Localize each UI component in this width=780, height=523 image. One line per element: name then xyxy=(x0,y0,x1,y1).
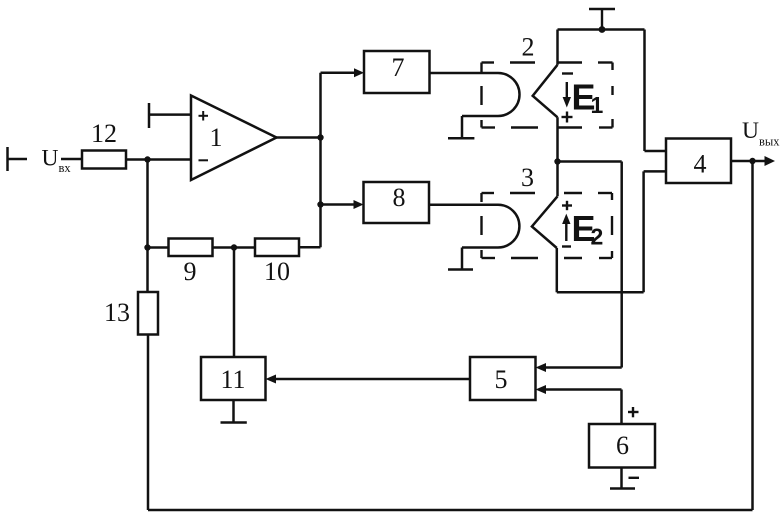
heater loop of converter 2 xyxy=(462,73,520,116)
ground of block 11 xyxy=(221,400,247,423)
block 5 xyxy=(470,357,536,400)
svg-text:3: 3 xyxy=(521,163,534,192)
wire E1 bottom to E2 top xyxy=(556,117,559,196)
label Uвх xyxy=(42,145,72,175)
wire E2 bottom across xyxy=(557,291,644,294)
wire top rail down to E1 xyxy=(556,30,559,65)
wire with arrow into block 8 xyxy=(321,200,364,209)
wire vertical bus to blocks 7,8 and R10 xyxy=(319,73,322,248)
ground of block 6 xyxy=(610,468,635,489)
wire op-amp output xyxy=(277,136,321,139)
junction R9 node xyxy=(144,244,150,250)
label E2 polarity plus xyxy=(562,201,572,210)
label block 6 minus xyxy=(629,477,640,479)
svg-text:U: U xyxy=(742,118,759,144)
thermocouple E1 xyxy=(533,65,558,118)
wire with arrow into block 5 upper input xyxy=(536,363,622,372)
svg-text:12: 12 xyxy=(91,119,117,148)
wire feedback up to R13 xyxy=(147,335,150,511)
svg-text:11: 11 xyxy=(220,365,245,394)
block 8 xyxy=(364,182,430,223)
junction output node xyxy=(749,158,755,164)
wire feedback right side down xyxy=(751,161,754,510)
wire midpoint tap xyxy=(558,162,622,368)
dashed enclosure of thermoconverter 3 xyxy=(482,193,613,258)
svg-text:вых: вых xyxy=(759,134,780,148)
wire E2 bottom down xyxy=(556,248,559,292)
block 6 xyxy=(589,424,655,468)
thermocouple E2 xyxy=(532,196,558,248)
wire R9 to R10 xyxy=(213,246,256,249)
input terminal xyxy=(8,147,28,171)
ground of heater 2 xyxy=(448,116,474,138)
svg-text:2: 2 xyxy=(522,33,535,62)
label E1 xyxy=(572,77,604,119)
terminal at non-inverting input xyxy=(149,103,191,128)
junction thermocouple midpoint xyxy=(554,158,560,164)
wire block 6 to block 5 lower input with arrow xyxy=(536,385,622,424)
label block 6 plus xyxy=(628,407,639,417)
svg-text:вх: вх xyxy=(59,161,72,175)
junction top rail xyxy=(599,26,606,33)
resistor R12 xyxy=(82,151,126,169)
svg-text:6: 6 xyxy=(616,431,629,460)
junction inverting-input node xyxy=(144,156,150,162)
wire block8 to heater of converter 3 xyxy=(429,203,498,206)
svg-text:U: U xyxy=(42,145,59,171)
wire with arrow into block 7 xyxy=(321,68,365,77)
power terminal at top xyxy=(589,9,615,30)
svg-text:1: 1 xyxy=(210,123,223,152)
svg-text:8: 8 xyxy=(393,183,406,212)
svg-text:1: 1 xyxy=(591,92,604,118)
arrow of E2 emf xyxy=(562,214,570,241)
svg-text:10: 10 xyxy=(264,257,290,286)
wire to R9 xyxy=(148,246,169,249)
arrow output xyxy=(765,156,776,166)
heater loop of converter 3 xyxy=(462,205,519,248)
block 7 xyxy=(364,51,430,93)
wire block7 to heater of converter 2 xyxy=(430,72,499,75)
wire R13 top to inverting node xyxy=(146,160,149,293)
label E1 polarity minus xyxy=(562,72,573,74)
junction divider node xyxy=(231,244,237,250)
svg-text:4: 4 xyxy=(694,150,707,179)
label E2 polarity minus xyxy=(562,245,571,247)
label E1 polarity plus xyxy=(562,112,573,123)
wire feedback bottom xyxy=(148,509,753,512)
wire block 4 output xyxy=(731,160,767,163)
wire top rail xyxy=(558,28,645,31)
svg-text:9: 9 xyxy=(184,257,197,286)
svg-text:13: 13 xyxy=(104,298,130,327)
wire R12 to inverting input xyxy=(126,158,191,161)
svg-text:2: 2 xyxy=(591,224,604,250)
ground of heater 3 xyxy=(448,248,473,270)
label E2 xyxy=(572,208,604,250)
label Uвых xyxy=(742,118,780,148)
block 4 xyxy=(666,139,731,184)
wire block 5 to block 11 with arrow xyxy=(266,375,471,384)
resistor R9 xyxy=(169,239,213,257)
wire Uвх to R12 xyxy=(61,158,82,161)
wire up to block 4 lower input xyxy=(644,171,666,292)
wire R10 to bus xyxy=(299,246,321,249)
junction op-amp output node xyxy=(317,134,323,140)
junction block-8 tap xyxy=(317,201,323,207)
arrow of E1 emf xyxy=(563,82,571,108)
wire top rail to block 4 upper input xyxy=(645,30,667,152)
resistor R10 xyxy=(255,239,299,257)
block 11 xyxy=(201,357,266,400)
svg-text:5: 5 xyxy=(495,365,508,394)
svg-text:7: 7 xyxy=(392,53,405,82)
op-amp U1 xyxy=(191,96,277,181)
dashed enclosure of thermoconverter 2 xyxy=(482,63,613,128)
wire divider node to block 11 xyxy=(233,248,236,358)
resistor R13 xyxy=(138,292,158,335)
